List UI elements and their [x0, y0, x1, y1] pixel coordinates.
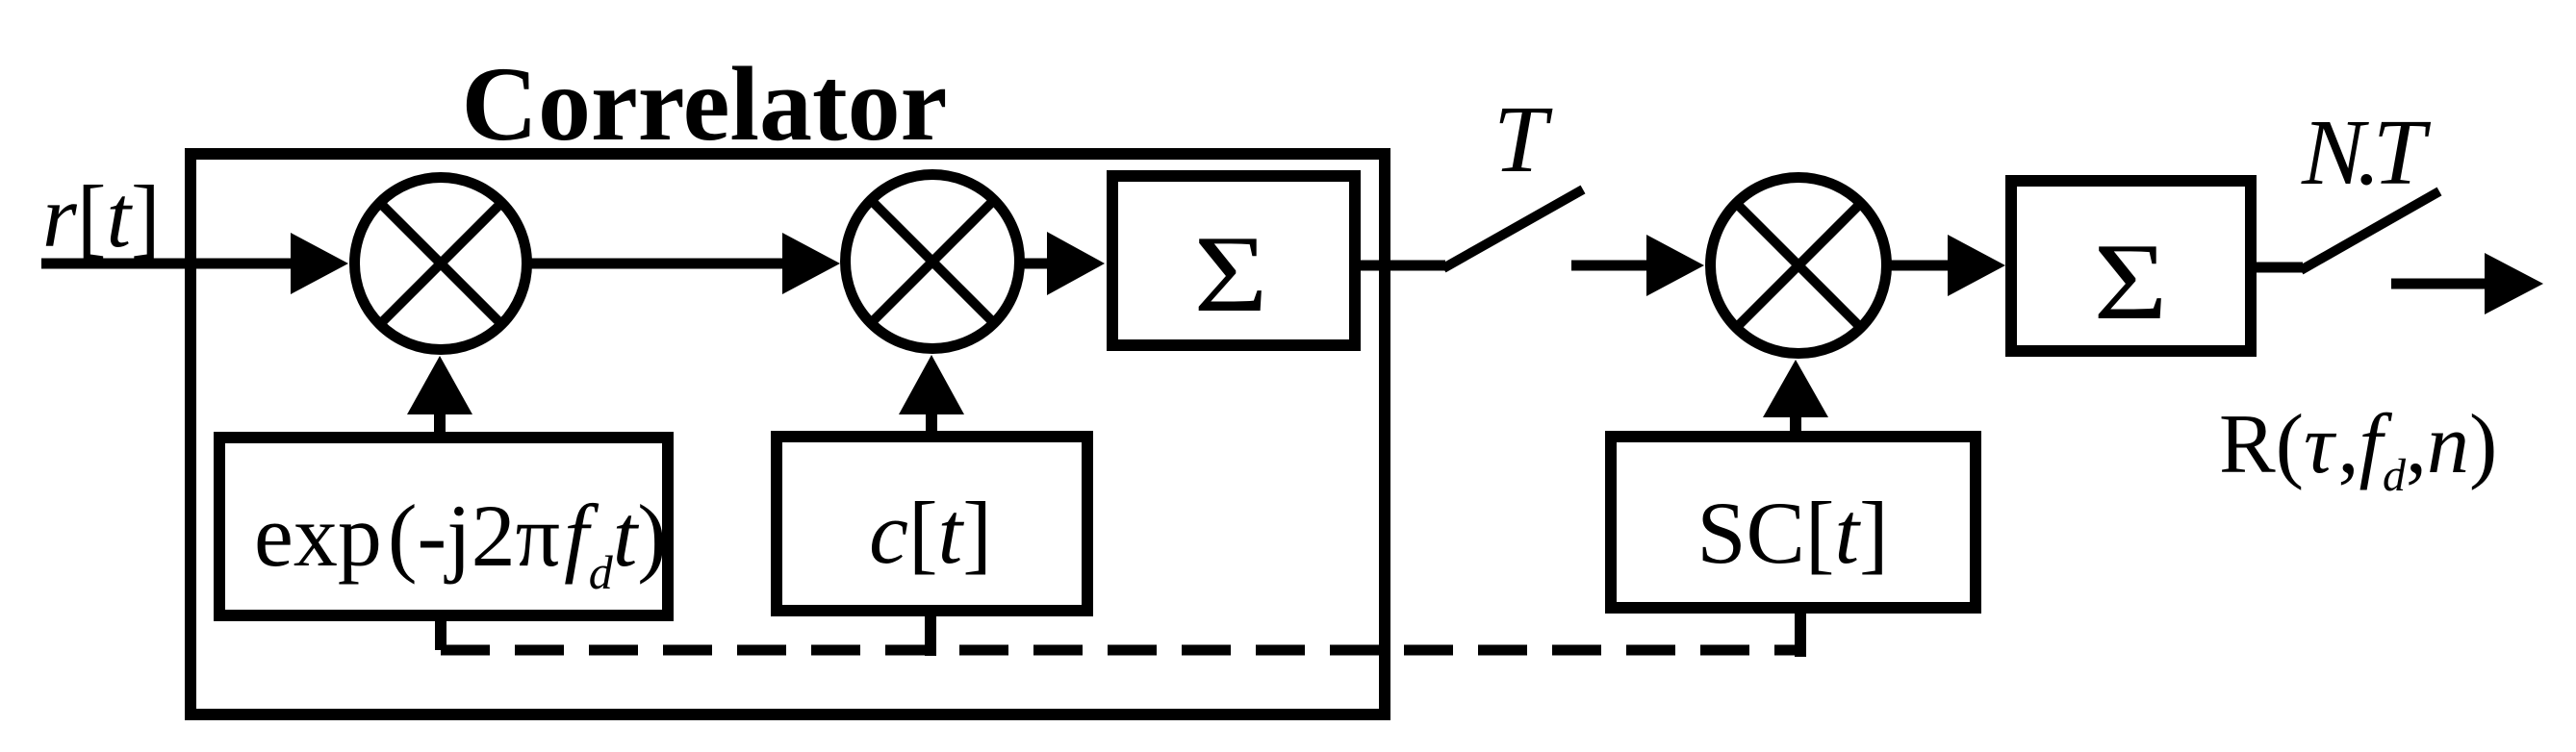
stem exp box down	[435, 615, 446, 650]
arrowhead into multiplier M2	[782, 233, 840, 294]
summation block S1	[1112, 176, 1355, 345]
block c[t]	[777, 437, 1087, 611]
output wire	[2391, 279, 2492, 289]
arrowhead into summation S2	[1948, 235, 2005, 296]
svg-text:SC[t]: SC[t]	[1696, 484, 1888, 582]
multiplier M2	[846, 175, 1020, 349]
dashed feedback wire	[441, 645, 1800, 656]
stem exp box to M1	[434, 412, 446, 433]
wire M3 to summation S2	[1888, 261, 1957, 271]
wire M2 to summation S1	[1020, 259, 1057, 269]
switch N.T blade	[2301, 191, 2439, 270]
svg-text:c[t]: c[t]	[869, 484, 992, 582]
wire S1 to switch T	[1355, 261, 1445, 271]
svg-text:Σ: Σ	[1194, 213, 1268, 335]
up arrowhead into M1	[407, 356, 472, 414]
block SC[t]	[1611, 437, 1976, 608]
svg-text:N.T: N.T	[2301, 101, 2432, 205]
stem SC box down	[1795, 608, 1806, 657]
summation block S2	[2011, 181, 2251, 351]
arrowhead into summation S1	[1047, 232, 1105, 295]
svg-text:Correlator: Correlator	[462, 45, 948, 163]
svg-text:r[t]: r[t]	[42, 167, 161, 265]
stem c box to M2	[926, 412, 937, 433]
up arrowhead into M2	[899, 355, 964, 414]
correlator enclosure box	[191, 154, 1385, 714]
stem c box down	[925, 611, 936, 656]
wire S2 to switch N.T	[2251, 263, 2303, 273]
wire switch T to M3	[1571, 261, 1657, 271]
arrowhead into multiplier M1	[291, 233, 348, 294]
block exp(-j2pi fd t)	[219, 438, 668, 615]
arrowhead into multiplier M3	[1646, 235, 1704, 296]
svg-text:Σ: Σ	[2094, 220, 2168, 342]
multiplier M3	[1711, 178, 1887, 354]
svg-text:R(τ,fd,n): R(τ,fd,n)	[2219, 398, 2497, 501]
up arrowhead into M3	[1763, 360, 1828, 417]
svg-text:T: T	[1493, 86, 1553, 192]
wire input r[t]	[41, 259, 318, 269]
switch T blade	[1443, 189, 1583, 268]
wire M1 to M2	[527, 259, 794, 269]
output arrowhead	[2485, 253, 2543, 314]
multiplier M1	[355, 178, 527, 350]
stem SC box to M3	[1790, 414, 1801, 433]
